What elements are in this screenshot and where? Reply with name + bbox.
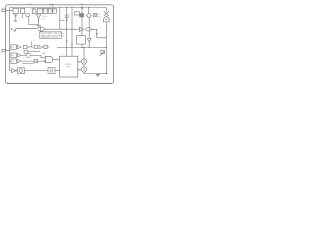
- sense element Q4: [101, 50, 105, 53]
- svg-text:IN2: IN2: [11, 55, 14, 57]
- block UVLO: [32, 9, 36, 14]
- wire: [31, 42, 33, 48]
- wire: [25, 70, 49, 72]
- wire: [21, 54, 26, 56]
- wire: [78, 69, 82, 71]
- capacitor C2: [14, 15, 18, 16]
- main block U5: [60, 56, 78, 77]
- IC boundary U1: [10, 8, 107, 71]
- ground: [37, 24, 41, 26]
- wire bus: [57, 47, 106, 49]
- ground: [14, 20, 17, 21]
- current source Q3: [81, 67, 86, 72]
- wire: [55, 70, 60, 72]
- arrow: [66, 19, 68, 21]
- block C2: [34, 60, 38, 63]
- wire: [78, 61, 82, 63]
- wire: [27, 46, 34, 48]
- filter block: [48, 68, 55, 74]
- block reference: [20, 8, 24, 13]
- wire: [14, 28, 38, 31]
- oscillator block: [18, 68, 25, 74]
- current source Q2: [81, 59, 86, 64]
- wire: [84, 72, 106, 74]
- buffer C: [17, 59, 21, 62]
- wire: [22, 63, 34, 65]
- wire: [46, 28, 80, 30]
- svg-text:IN1: IN1: [11, 47, 14, 49]
- wire: [66, 8, 68, 57]
- wire: [60, 19, 64, 21]
- block A2: [23, 45, 27, 48]
- note box (features text): [40, 32, 62, 39]
- wire: [92, 29, 107, 38]
- wire: [21, 60, 45, 62]
- svg-text:VREF UVLO OCP TSD: VREF UVLO OCP TSD: [41, 37, 59, 39]
- border frame: [6, 5, 114, 84]
- block ref2: [53, 8, 57, 13]
- op-amp U2: [41, 27, 46, 32]
- wire: [28, 51, 40, 53]
- diode bridge D2: [86, 13, 91, 18]
- buffer B: [17, 54, 21, 58]
- pin oval B3: [26, 54, 30, 58]
- wire: [71, 8, 73, 57]
- wire: [53, 59, 60, 61]
- inverter U6: [12, 69, 16, 73]
- block osc: [48, 8, 52, 13]
- diode D3: [88, 18, 90, 38]
- ground: [97, 73, 99, 74]
- block sense: [80, 14, 84, 17]
- pin oval OUT: [86, 28, 92, 31]
- svg-text:10n: 10n: [98, 16, 101, 18]
- buffer A4: [39, 45, 43, 49]
- wire: [6, 9, 14, 11]
- block LDO: [38, 8, 43, 13]
- wire: [105, 8, 107, 12]
- wire: [105, 22, 107, 73]
- block bias: [43, 8, 47, 13]
- wire: [59, 8, 61, 30]
- arrow: [96, 33, 98, 35]
- buffer A: [17, 45, 21, 49]
- svg-text:VREF: VREF: [42, 16, 48, 18]
- block driver2: [77, 36, 86, 45]
- svg-text:VM5: VM5: [49, 4, 54, 6]
- arrow: [10, 28, 12, 30]
- pad IN1 (left mid): [2, 49, 6, 52]
- block comp: [44, 45, 47, 48]
- arrow: [66, 41, 68, 43]
- node rail joints: [59, 7, 60, 8]
- wire: [81, 8, 83, 14]
- svg-text:VDD: VDD: [80, 4, 85, 6]
- block B2: [24, 50, 28, 53]
- node: [13, 30, 14, 31]
- wire: [31, 56, 46, 58]
- wire: [88, 8, 90, 14]
- wire: [6, 50, 11, 52]
- transistor Q1 (power switch): [104, 11, 109, 16]
- bubble: [44, 60, 45, 61]
- block IN C: [11, 59, 17, 63]
- wire: [29, 16, 39, 24]
- pad VIN (left top): [2, 9, 6, 12]
- wire: [83, 48, 85, 59]
- block IN B: [11, 53, 17, 58]
- svg-text:VDDH: VDDH: [26, 4, 33, 6]
- block regulator: [13, 8, 19, 13]
- block A3: [34, 45, 37, 48]
- block drv: [75, 12, 80, 15]
- and gate U4: [46, 56, 53, 62]
- arrow: [71, 44, 73, 46]
- svg-text:PWM: PWM: [42, 53, 47, 55]
- buffer U3: [80, 27, 84, 32]
- wire: [81, 17, 83, 36]
- block IN A: [11, 45, 17, 50]
- diode D1: [36, 14, 41, 18]
- wire: [22, 14, 24, 17]
- wire stubs: [34, 8, 55, 10]
- capacitor C1: [93, 13, 97, 16]
- block vref sw: [26, 14, 29, 17]
- node A: [65, 15, 68, 18]
- svg-text:REF: REF: [44, 10, 47, 12]
